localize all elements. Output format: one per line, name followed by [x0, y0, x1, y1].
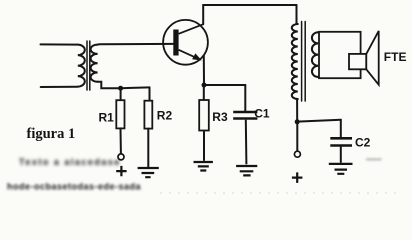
wire R3 bottom — [203, 131, 205, 161]
svg-text:C2: C2 — [355, 136, 371, 150]
svg-text:R1: R1 — [99, 110, 115, 124]
wire node B to C1 — [204, 84, 245, 86]
ground (C1) — [236, 166, 257, 175]
wire R2 top — [149, 87, 151, 100]
wire R1 top — [120, 88, 122, 100]
speaker frame — [319, 32, 361, 78]
transformer T1 secondary winding — [91, 45, 98, 82]
svg-text:hode-ocbasetodas-ede-sada: hode-ocbasetodas-ede-sada — [7, 182, 142, 192]
resistor R3 — [199, 100, 209, 131]
wire C1 bottom — [245, 120, 248, 165]
transformer T1 primary winding — [78, 45, 85, 87]
wire R2 bottom — [147, 129, 149, 167]
transformer T2 primary winding — [292, 24, 298, 99]
terminal circle (battery + right) — [294, 151, 300, 157]
wire C2 bottom — [340, 147, 342, 162]
wire battery right — [296, 122, 298, 151]
node B junction dot — [202, 83, 207, 88]
ground (C2) — [329, 164, 353, 174]
svg-text:Texto a alacedase: Texto a alacedase — [19, 157, 121, 167]
svg-text:R3: R3 — [212, 110, 228, 124]
wire C1 top — [244, 85, 246, 111]
node A junction dot — [118, 86, 123, 91]
wire T2 primary top — [296, 5, 298, 24]
Q1 collector stroke — [179, 24, 203, 34]
plus sign right — [292, 172, 303, 183]
wire collector up — [202, 5, 204, 24]
wire input top lead — [41, 43, 78, 45]
resistor R1 — [116, 100, 124, 128]
wire T1 secondary bottom to node A — [98, 82, 150, 89]
resistor R2 — [144, 101, 152, 129]
node C junction dot — [295, 119, 300, 124]
wire C2 top — [340, 120, 342, 137]
wire emitter down — [203, 56, 205, 86]
wire R1 bottom — [120, 128, 122, 153]
capacitor C2 plates — [330, 138, 352, 145]
scan artifact: faint dots bottom right — [160, 192, 400, 194]
plus sign left — [116, 166, 126, 176]
svg-text:figura 1: figura 1 — [27, 126, 76, 142]
svg-text:.......: ....... — [366, 153, 382, 162]
wire T2 primary bottom — [296, 99, 298, 122]
wire node C to C2 — [297, 120, 341, 122]
transistor Q1 — [163, 20, 208, 65]
svg-text:R2: R2 — [157, 109, 173, 123]
capacitor C1 plates — [233, 112, 257, 119]
wire base (T1 secondary top to Q1 base) — [98, 43, 174, 46]
ground (R2) — [138, 168, 159, 177]
transformer T1 core — [87, 41, 90, 90]
Q1 emitter stroke — [179, 50, 200, 60]
wire top rail — [203, 4, 296, 6]
transformer T2 secondary winding — [312, 32, 318, 77]
svg-text:FTE: FTE — [384, 50, 407, 64]
Q1 base bar — [173, 30, 178, 56]
wire R3 top — [203, 85, 205, 100]
ground (R3) — [194, 162, 213, 171]
speaker driver — [349, 54, 366, 69]
wire input bottom lead — [41, 86, 78, 88]
speaker cone — [366, 31, 378, 85]
terminal circle (battery + left) — [118, 154, 124, 160]
Q1 emitter arrowhead — [192, 53, 202, 60]
transformer T2 core — [302, 22, 306, 102]
svg-text:C1: C1 — [254, 107, 270, 121]
